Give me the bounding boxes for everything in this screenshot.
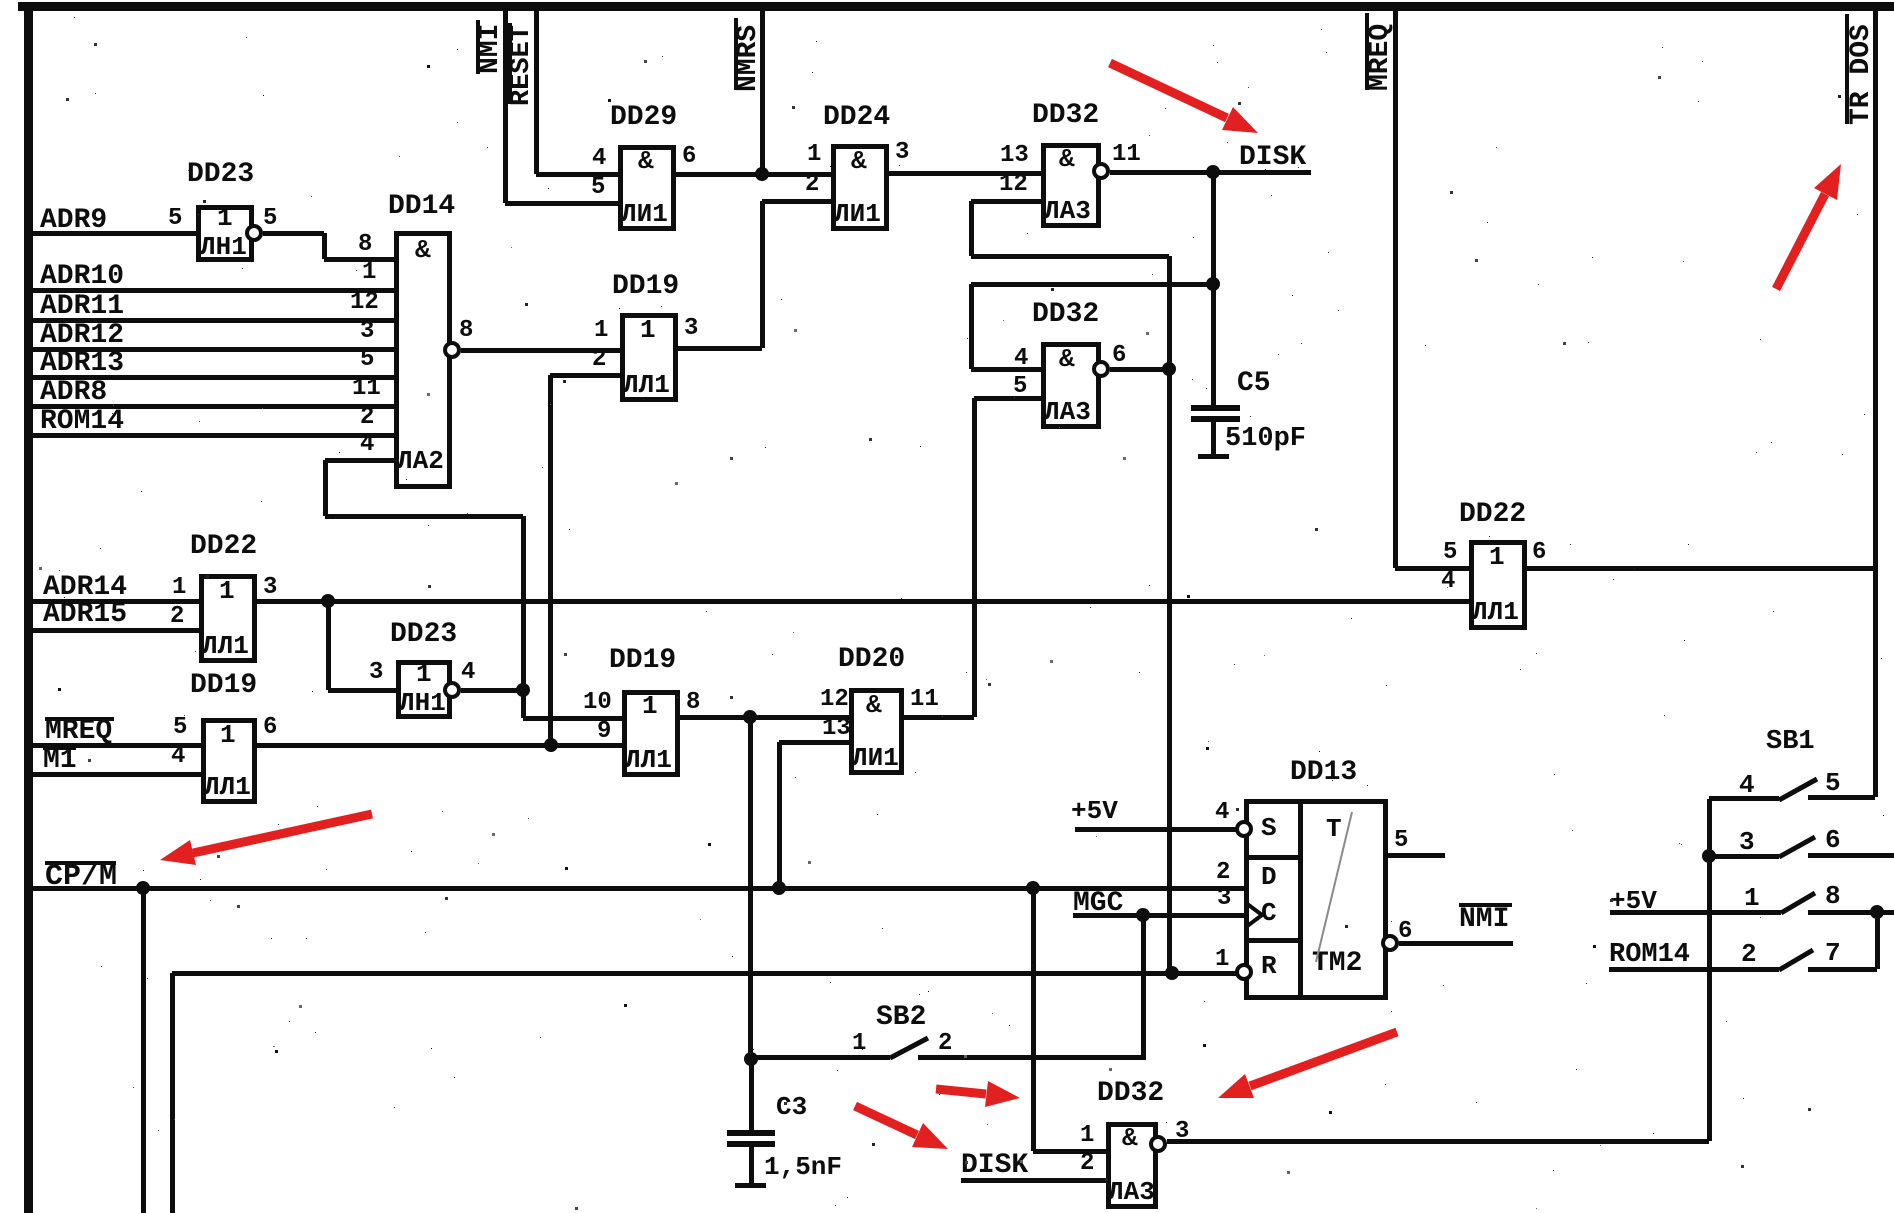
nand DD32#3 output bubble	[1149, 1135, 1167, 1153]
node MGC label	[1073, 890, 1123, 918]
wire DD23 out to DD14 pin8	[263, 231, 324, 236]
wire DD13 out6 NMI stub	[1399, 941, 1513, 946]
wire DD19 pin2 from MREQ/M1 net	[550, 373, 620, 378]
pin 5 label DD13 out	[1394, 829, 1408, 853]
wire DD32#2 pin5 from DD20 out	[974, 396, 1041, 401]
capacitor C5 ref label	[1237, 370, 1271, 398]
wire MGC to C input	[1073, 913, 1244, 918]
capacitor C3 plates	[727, 1130, 775, 1136]
and-gate DD20 ref label	[838, 646, 905, 674]
TR DOS overbar	[1845, 14, 1849, 124]
pin 11 label DD20	[910, 688, 939, 712]
junction DISK column	[1206, 165, 1220, 179]
red annotation arrow to CP/M	[193, 814, 372, 853]
pin 8 label DD14	[358, 233, 372, 257]
wire DISK stub to pin2	[961, 1178, 1106, 1183]
flip-flop DD13 input strip divider	[1298, 799, 1303, 1000]
pin 11 label DD32	[1112, 143, 1141, 167]
node NMI stub	[503, 8, 508, 203]
node CP/M label	[45, 862, 117, 892]
junction MGC / SB2 branch	[1136, 908, 1150, 922]
pin 2 label SB1	[1741, 941, 1757, 967]
flip-flop DD13 cell divider S/D	[1244, 855, 1300, 860]
wire DISK net from DD32#1 out	[1110, 170, 1311, 175]
red annotation arrow to TR DOS	[1776, 194, 1825, 289]
nand DD14 ref label	[388, 193, 455, 221]
junction ADR14 net / DD23b branch	[321, 594, 335, 608]
switch SB1 ref label	[1766, 729, 1815, 756]
wire DD14 out to DD19 pin1	[461, 348, 620, 353]
wire DD14 pin4 input	[325, 458, 394, 463]
pin 10 label DD19b	[583, 691, 612, 715]
red annotation arrow to DISK stub	[855, 1106, 917, 1135]
pin 2 label SB2	[938, 1032, 952, 1056]
pin 2 label DD24	[805, 173, 819, 197]
pin 3 label DD13	[1217, 887, 1231, 911]
pin 4 label SB1	[1739, 772, 1755, 798]
pin 2 label DD14	[360, 406, 374, 430]
NMI overbar	[476, 20, 480, 74]
wire ADR14 decode net	[257, 599, 1469, 604]
NMRS overbar	[734, 18, 738, 90]
pin 6 label DD32#2	[1112, 344, 1126, 368]
capacitor C5 plates	[1191, 405, 1240, 411]
wire SB1 row2 right	[1808, 853, 1894, 858]
pin 3 label DD32#3	[1175, 1120, 1189, 1144]
wire DISK vertical to C5	[1211, 172, 1216, 406]
junction CP/M / DD32#3 pin1 branch	[1026, 881, 1040, 895]
top border frame	[18, 2, 1894, 11]
wire DD32#1 pin12 loop	[971, 199, 1041, 204]
node ADR12 label	[40, 322, 124, 350]
wire ADR12	[32, 347, 394, 352]
junction DD32#2 out / DISK column	[1162, 362, 1176, 376]
pin 6 label DD19c	[263, 716, 277, 740]
flip-flop DD13 cell divider C/R	[1244, 938, 1300, 943]
wire DD20 pin13 from CP/M net	[779, 740, 849, 745]
switch SB1 blade row3	[1781, 893, 1815, 913]
wire SB1 row4 right	[1808, 967, 1877, 972]
capacitor C5 bottom lead	[1211, 422, 1216, 456]
wire branch to DD23b pin3	[326, 601, 331, 690]
wire DD20 pin12	[750, 715, 849, 720]
pin 1 label SB1	[1744, 885, 1760, 911]
node ADR11 label	[40, 293, 124, 321]
node MREQ (top) stub	[1393, 8, 1398, 568]
node RESET stub	[534, 8, 539, 174]
or-gate DD22 (right) body	[1469, 540, 1527, 630]
pin 3 label DD23b	[369, 661, 383, 685]
pin 5 label DD19c	[173, 716, 187, 740]
wire SB1 pin8-pin7 tie	[1875, 912, 1880, 969]
wire DD19c out	[257, 743, 622, 748]
M1 overbar	[43, 746, 76, 750]
nand DD14 output bubble	[443, 341, 461, 359]
junction DD23b out / DD14 pin4 / DD19b pin10	[516, 683, 530, 697]
switch SB2 ref label	[876, 1004, 926, 1032]
junction SB1 pins4/3 bus	[1702, 849, 1716, 863]
node MREQ label	[45, 718, 112, 746]
left border frame	[24, 2, 33, 1213]
MREQ overbar	[1365, 13, 1369, 90]
wire SB1 row1 left	[1709, 796, 1779, 801]
wire ROM14	[32, 433, 394, 438]
node ROM14 label (SB1)	[1609, 942, 1690, 969]
wire SB1 row3 +5V	[1610, 910, 1781, 915]
node ADR10 label	[40, 263, 124, 291]
or-gate DD22 (left) ref label	[190, 533, 257, 561]
switch SB1 blade row2	[1779, 837, 1815, 857]
junction DD19b out / DD20 pin12 / SB2 branch	[743, 710, 757, 724]
capacitor C3 ref label	[776, 1094, 807, 1120]
capacitor C3 top lead	[749, 1059, 754, 1131]
pin 6 label DD29	[682, 145, 696, 169]
node DISK stub label	[961, 1152, 1028, 1180]
pin 3 label DD19	[684, 317, 698, 341]
nand DD32 (first) ref label	[1032, 102, 1099, 130]
inverter DD23 (top) body	[196, 205, 254, 262]
NMI out overbar	[1459, 903, 1512, 907]
pin 5 output label DD23	[263, 207, 277, 231]
nand DD32 (first) body	[1041, 143, 1101, 228]
pin 1 label SB2	[852, 1032, 866, 1056]
wire SB2 right lead	[918, 1055, 1146, 1060]
junction CP/M / DD20 pin13	[772, 881, 786, 895]
junction CP/M drop (left)	[136, 881, 150, 895]
node ADR13 label	[40, 350, 124, 378]
pin 5 label DD32#2	[1013, 375, 1027, 399]
pin 4 label DD19c	[171, 745, 185, 769]
or-gate DD19 (bottom) body	[622, 690, 680, 777]
node NMRS stub	[760, 8, 765, 174]
junction NMRS/DD29out/DD24pin1	[755, 167, 769, 181]
pin 5 label SB1	[1825, 770, 1841, 796]
inverter DD23 (mid) ref label	[390, 621, 457, 649]
or-gate DD19 (left) body	[201, 718, 257, 804]
wire R net horizontal	[172, 971, 1236, 976]
and-gate DD29 body	[618, 145, 676, 231]
pin 4 label DD14	[360, 433, 374, 457]
junction SB1 pin8 / pin7 tie	[1870, 905, 1884, 919]
pin 5 label DD29	[591, 176, 605, 200]
flip-flop DD13 ref label	[1290, 759, 1357, 787]
wire R net left drop	[170, 973, 175, 1213]
node ROM14 label	[40, 408, 124, 436]
inverter DD23 output bubble	[245, 224, 263, 242]
wire MREQ to DD22b pin5	[1395, 566, 1469, 571]
wire ADR8	[32, 404, 394, 409]
CP/M overbar	[45, 861, 116, 865]
wire SB1 row2 left	[1709, 854, 1779, 859]
node +5V label (SB1)	[1610, 888, 1657, 914]
and-gate DD20 body	[849, 688, 904, 775]
wire ADR11	[32, 318, 394, 323]
or-gate DD19 (top) ref label	[612, 273, 679, 301]
junction SB2 / C3 / DD19b-DD20 branch	[744, 1052, 758, 1066]
wire to DD19b pin10	[523, 716, 622, 721]
wire DD32#3 out to SB1	[1167, 1139, 1709, 1144]
inverter DD23 (mid) body	[396, 660, 452, 719]
wire ADR14	[32, 599, 199, 604]
wire DD32#2 pin4 from DISK column	[971, 367, 1041, 372]
wire ADR15	[32, 628, 199, 633]
or-gate DD19 (top) body	[620, 313, 678, 402]
nand DD32 (second) ref label	[1032, 301, 1099, 329]
pin 12 label DD20	[820, 688, 849, 712]
wire DD20 out to DD32#2 pin5	[904, 715, 974, 720]
and-gate DD24 ref label	[823, 104, 890, 132]
pin 5 label DD14	[360, 348, 374, 372]
nand DD14 body	[394, 231, 452, 489]
wire DD24 pin2 from DD19 out	[762, 199, 831, 204]
pin 3 label SB1	[1739, 829, 1755, 855]
red annotation arrow to DD32#3 (from right)	[1250, 1032, 1397, 1086]
pin 2 label DD13	[1216, 861, 1230, 885]
wire CP/M long net	[33, 886, 1244, 891]
pin 3 label DD22a	[263, 576, 277, 600]
wire DD23b out	[461, 688, 523, 693]
wire branch down to SB2	[748, 717, 753, 1059]
pin 4 label DD32#2	[1014, 347, 1028, 371]
or-gate DD22 (left) body	[199, 574, 257, 663]
or-gate DD19 (bottom) ref label	[609, 647, 676, 675]
node ADR14 label	[43, 574, 127, 602]
pin 9 label DD19b	[597, 720, 611, 744]
wire M1	[32, 772, 201, 777]
pin 1 label DD24	[807, 143, 821, 167]
pin 1 label DD14	[362, 261, 376, 285]
or-gate DD19 (left) ref label	[190, 672, 257, 700]
node ADR9 label	[40, 207, 107, 235]
wire ADR9	[32, 231, 196, 236]
and-gate DD24 body	[831, 144, 889, 231]
wire DD32#2 out to DISK column	[1110, 367, 1169, 372]
wire SB1 row3 right	[1808, 910, 1894, 915]
RESET overbar	[508, 23, 512, 104]
wire SB1 row4 ROM14	[1609, 967, 1779, 972]
node +5V label (DD13)	[1071, 798, 1118, 824]
node ADR15 label	[43, 601, 127, 629]
wire SB1 row1 right	[1808, 795, 1875, 800]
flip-flop DD13 S input bubble	[1235, 820, 1253, 838]
wire +5V to S	[1075, 827, 1236, 832]
inverter DD23b output bubble	[443, 681, 461, 699]
pin 1 label DD19	[594, 319, 608, 343]
wire ADR13	[32, 375, 394, 380]
switch SB1 blade row4	[1779, 950, 1813, 970]
pin 3 label DD24	[895, 141, 909, 165]
pin 6 label DD13 out	[1398, 920, 1412, 944]
scan noise	[0, 0, 1, 1]
pin 2 label DD32#3	[1080, 1152, 1094, 1176]
and-gate DD29 ref label	[610, 104, 677, 132]
nand DD32 (bottom) body	[1106, 1122, 1158, 1209]
junction R net / DISK column	[1165, 966, 1179, 980]
switch SB2 blade	[890, 1038, 928, 1058]
or-gate DD22 (right) ref label	[1459, 501, 1526, 529]
capacitor C3 value label	[764, 1154, 842, 1180]
pin 4 label DD23b	[461, 661, 475, 685]
pin 12 label DD32	[999, 173, 1028, 197]
capacitor C3 bottom lead	[749, 1147, 754, 1185]
nand DD32 (second) body	[1041, 342, 1101, 429]
pin 13 label DD32	[1000, 144, 1029, 168]
pin 1 label DD32#3	[1080, 1124, 1094, 1148]
MREQ overbar	[45, 717, 114, 721]
capacitor C5 value label	[1225, 426, 1306, 453]
nand DD32 (bottom) ref label	[1097, 1080, 1164, 1108]
node M1 label	[43, 747, 77, 775]
pin 5 label DD22b	[1443, 541, 1457, 565]
pin 2 label DD22a	[170, 605, 184, 629]
inverter DD23 (top) ref label	[187, 161, 254, 189]
node NMI output label	[1459, 906, 1509, 934]
pin 7 label SB1	[1825, 940, 1841, 966]
wire DD19b out	[680, 715, 750, 720]
node ADR8 label	[40, 379, 107, 407]
flip-flop DD13 pin6 output bubble	[1381, 934, 1399, 952]
pin 4 label DD29	[592, 147, 606, 171]
flip-flop DD13 R input bubble	[1235, 963, 1253, 981]
node TR DOS stub	[1873, 8, 1878, 797]
pin 1 label DD22a	[172, 576, 186, 600]
wire MREQ	[32, 743, 201, 748]
wire DD24 out to DD32 pin13	[889, 171, 1041, 176]
pin 11 label DD14	[352, 377, 381, 401]
wire CP/M left drop	[141, 888, 146, 1213]
pin 6 label SB1	[1825, 827, 1841, 853]
nand DD32 output bubble	[1092, 162, 1110, 180]
pin 2 label DD19	[592, 348, 606, 372]
pin 8 label SB1	[1825, 883, 1841, 909]
wire branch to DD32#3 pin1	[1031, 888, 1036, 1151]
scan scratch inside DD13	[1316, 812, 1352, 962]
red annotation arrow to DD32#3 (horizontal)	[936, 1089, 986, 1094]
pin 8 label DD19b	[686, 691, 700, 715]
wire SB2 left lead	[751, 1055, 890, 1060]
wire DD22b out to TR DOS column	[1527, 566, 1875, 571]
pin 12 label DD14	[350, 291, 379, 315]
pin 5 input label DD23	[168, 207, 182, 231]
junction MREQ net / DD19a pin2	[544, 738, 558, 752]
wire SB2 to MGC net	[1141, 915, 1146, 1057]
flip-flop DD13 outer body	[1244, 799, 1388, 1000]
wire DD29 out to DD24 pin1	[676, 172, 831, 177]
wire DD13 out5 stub	[1388, 853, 1445, 858]
red annotation arrow to DISK (top)	[1110, 63, 1227, 118]
pin 3 label DD14	[360, 320, 374, 344]
junction DISK/C5/DD32#2 pin4 net	[1206, 277, 1220, 291]
nand DD32#2 output bubble	[1092, 360, 1110, 378]
pin 4 label DD22b	[1441, 570, 1455, 594]
pin 13 label DD20	[822, 717, 851, 741]
pin 6 label DD22b	[1532, 541, 1546, 565]
flip-flop DD13 C dynamic-input chevron	[1246, 903, 1262, 927]
switch SB1 blade row1	[1779, 779, 1817, 800]
node DISK label	[1239, 144, 1306, 172]
wire ADR10	[32, 288, 394, 293]
pin 1 label DD13	[1215, 948, 1229, 972]
pin 8 output label DD14	[459, 319, 473, 343]
pin 4 label DD13	[1215, 801, 1229, 825]
